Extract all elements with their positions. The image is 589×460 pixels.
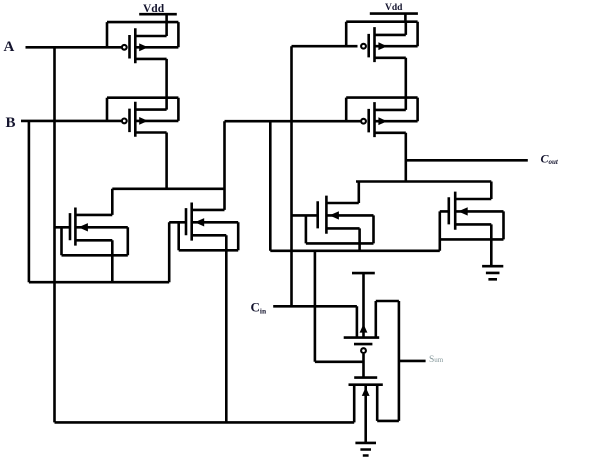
svg-text:A: A: [4, 39, 15, 55]
svg-text:Vdd: Vdd: [385, 3, 403, 13]
svg-text:Vdd: Vdd: [143, 3, 165, 15]
svg-text:Sum: Sum: [429, 355, 444, 365]
svg-text:B: B: [6, 115, 16, 131]
